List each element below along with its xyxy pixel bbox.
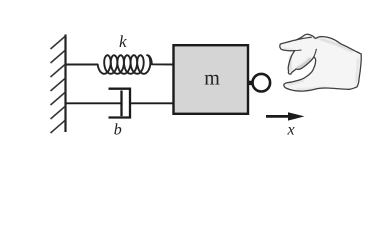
svg-text:m: m [204,67,220,89]
svg-text:x: x [287,122,295,139]
svg-text:k: k [119,32,127,51]
svg-text:b: b [114,121,122,138]
